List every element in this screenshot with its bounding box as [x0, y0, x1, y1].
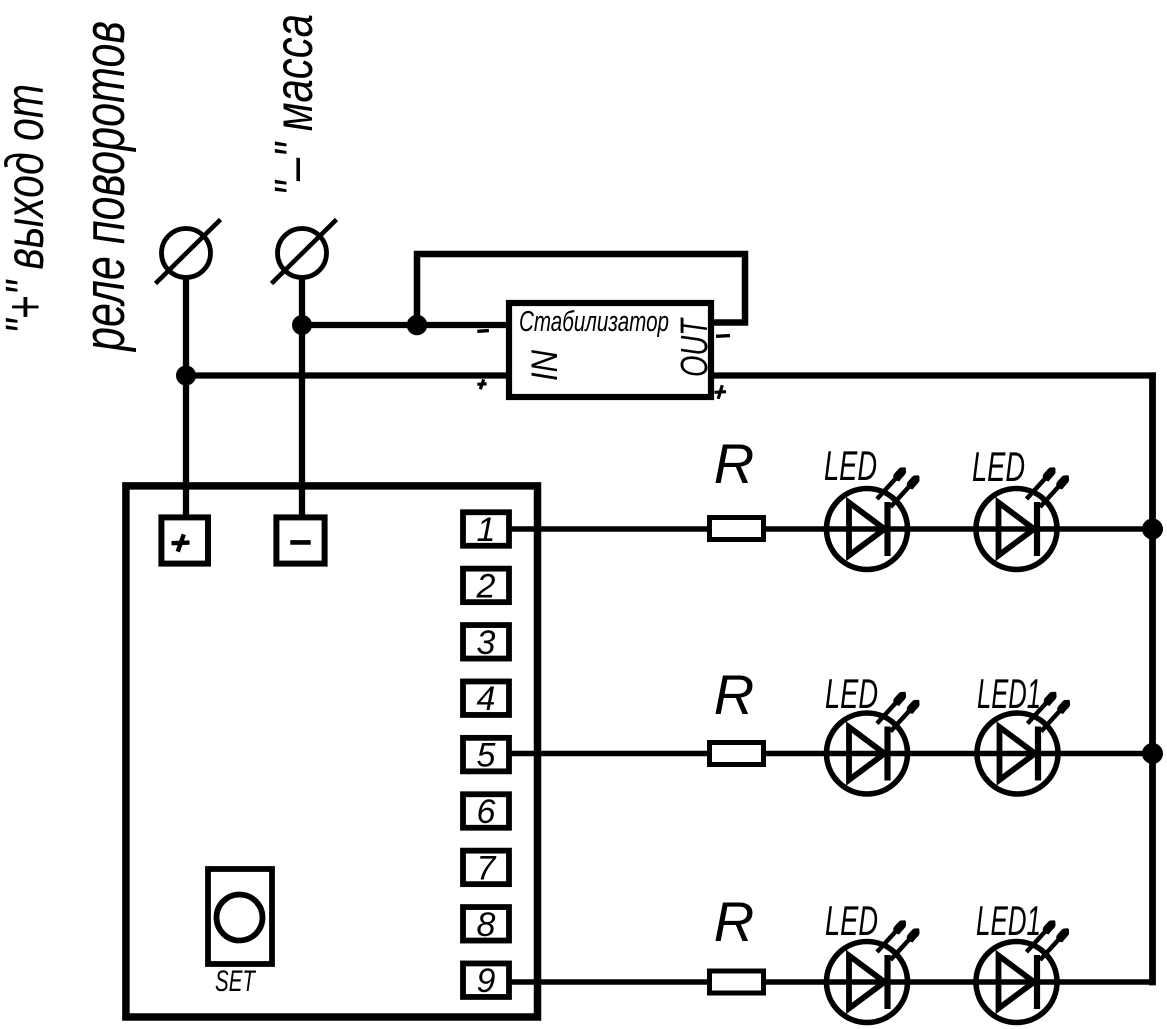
svg-text:LED: LED — [824, 442, 877, 489]
LED D2 row1 — [976, 469, 1067, 570]
svg-text:4: 4 — [477, 680, 496, 718]
junction dot X2 minus — [292, 315, 312, 335]
svg-text:7: 7 — [477, 849, 497, 887]
terminal X1 circle — [162, 229, 211, 278]
wire right bus vertical — [1149, 372, 1156, 985]
SET button circle — [217, 895, 263, 941]
pin box 8 — [463, 907, 509, 941]
svg-text:3: 3 — [477, 624, 496, 662]
svg-text:Стабилизатор: Стабилизатор — [519, 306, 669, 338]
plus terminal box — [161, 517, 208, 563]
svg-text:1: 1 — [477, 511, 496, 549]
wire X1 down to plus terminal — [183, 275, 189, 522]
LED D6 row3 — [976, 922, 1067, 1023]
junction dot minus/loop — [407, 315, 428, 336]
svg-text:LED: LED — [825, 897, 878, 944]
pin label plus IN — [477, 379, 486, 389]
svg-text:LED: LED — [972, 443, 1025, 490]
terminal X1 slash — [156, 220, 221, 284]
svg-text:LED: LED — [825, 670, 878, 717]
svg-text:LED1: LED1 — [976, 897, 1041, 944]
svg-text:IN: IN — [524, 350, 565, 381]
svg-text:R: R — [714, 663, 754, 726]
LED D1 row1 — [827, 469, 918, 570]
svg-text:5: 5 — [477, 737, 496, 775]
pin box 9 — [463, 963, 509, 997]
pin box 2 — [463, 569, 509, 603]
SET button body — [208, 869, 272, 964]
pin box 1 — [463, 512, 509, 546]
svg-text:"+" выход от: "+" выход от — [0, 84, 55, 334]
wire row 3 — [509, 979, 1153, 985]
resistor R row1 — [710, 518, 764, 540]
LED D4 row2 — [977, 694, 1068, 795]
LED D5 row3 — [827, 922, 918, 1023]
svg-text:9: 9 — [477, 962, 496, 1000]
minus sign — [290, 540, 310, 545]
LED D3 row2 — [827, 694, 918, 795]
svg-text:R: R — [714, 432, 754, 495]
pin box 4 — [463, 681, 509, 715]
stabilizer U1 box — [509, 303, 711, 397]
svg-text:8: 8 — [477, 906, 496, 944]
wire stabilizer OUT plus to bus — [711, 372, 1156, 378]
terminal X2 circle — [278, 229, 327, 278]
wire feedback loop to OUT minus — [417, 254, 745, 328]
resistor R row3 — [710, 971, 764, 993]
svg-text:"–" масса: "–" масса — [264, 14, 324, 196]
wire row 1 — [509, 526, 1153, 532]
pin box 3 — [463, 625, 509, 659]
junction dot X1 plus — [176, 366, 196, 386]
pin box 7 — [463, 851, 509, 885]
pin label minus OUT — [716, 334, 730, 338]
minus terminal box — [276, 517, 324, 563]
junction dot bus row2 — [1142, 743, 1163, 764]
pin label minus IN — [477, 329, 489, 333]
svg-text:OUT: OUT — [674, 317, 716, 377]
svg-text:реле поворотов: реле поворотов — [72, 21, 137, 352]
terminal X2 slash — [272, 220, 337, 284]
wire plus net to stabilizer IN — [186, 372, 508, 378]
junction dot bus row1 — [1142, 519, 1163, 540]
resistor R row2 — [710, 743, 764, 765]
wire row 2 — [509, 751, 1153, 757]
pin box 6 — [463, 794, 509, 828]
svg-text:R: R — [714, 890, 754, 953]
plus sign — [172, 534, 190, 551]
pin box 5 — [463, 738, 509, 772]
svg-text:LED1: LED1 — [977, 670, 1041, 717]
svg-text:SET: SET — [215, 965, 256, 998]
pin label plus OUT — [715, 385, 727, 399]
wire X2 down to minus terminal — [299, 275, 305, 522]
svg-text:6: 6 — [477, 793, 496, 831]
wire minus net to stabilizer IN — [302, 322, 508, 328]
svg-text:2: 2 — [476, 567, 496, 605]
controller box — [126, 486, 538, 1017]
